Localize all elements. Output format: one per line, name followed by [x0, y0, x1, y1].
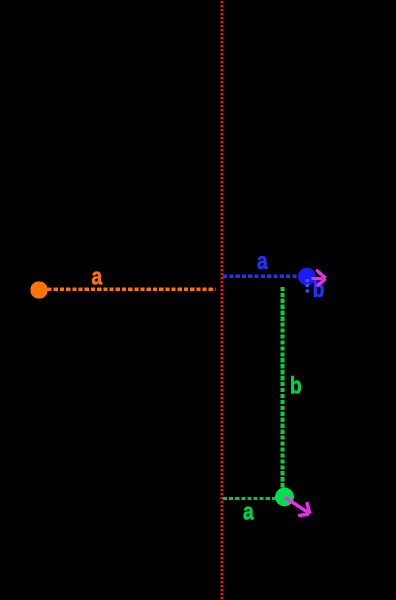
svg-text:a: a	[92, 263, 103, 291]
svg-text:a: a	[257, 247, 268, 275]
svg-text:a: a	[243, 497, 254, 525]
svg-text:b: b	[290, 372, 302, 400]
